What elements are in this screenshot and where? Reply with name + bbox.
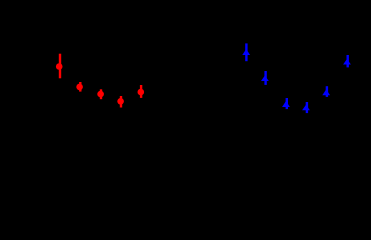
red errorbar point R2 (76, 82, 83, 92)
blue errorbar point B6 (triangle marker) (343, 55, 351, 67)
red errorbar point R4 (117, 96, 124, 108)
blue errorbar point B5 (triangle marker) (322, 86, 330, 97)
red errorbar point R3 (97, 89, 104, 99)
blue errorbar point B2 (triangle marker) (261, 71, 269, 85)
blue errorbar point B4 (triangle marker) (302, 102, 310, 113)
red errorbar point R5 (138, 85, 145, 98)
red errorbar point R1 (56, 54, 63, 79)
blue errorbar point B1 (triangle marker) (242, 43, 250, 61)
blue errorbar point B3 (triangle marker) (282, 98, 290, 109)
